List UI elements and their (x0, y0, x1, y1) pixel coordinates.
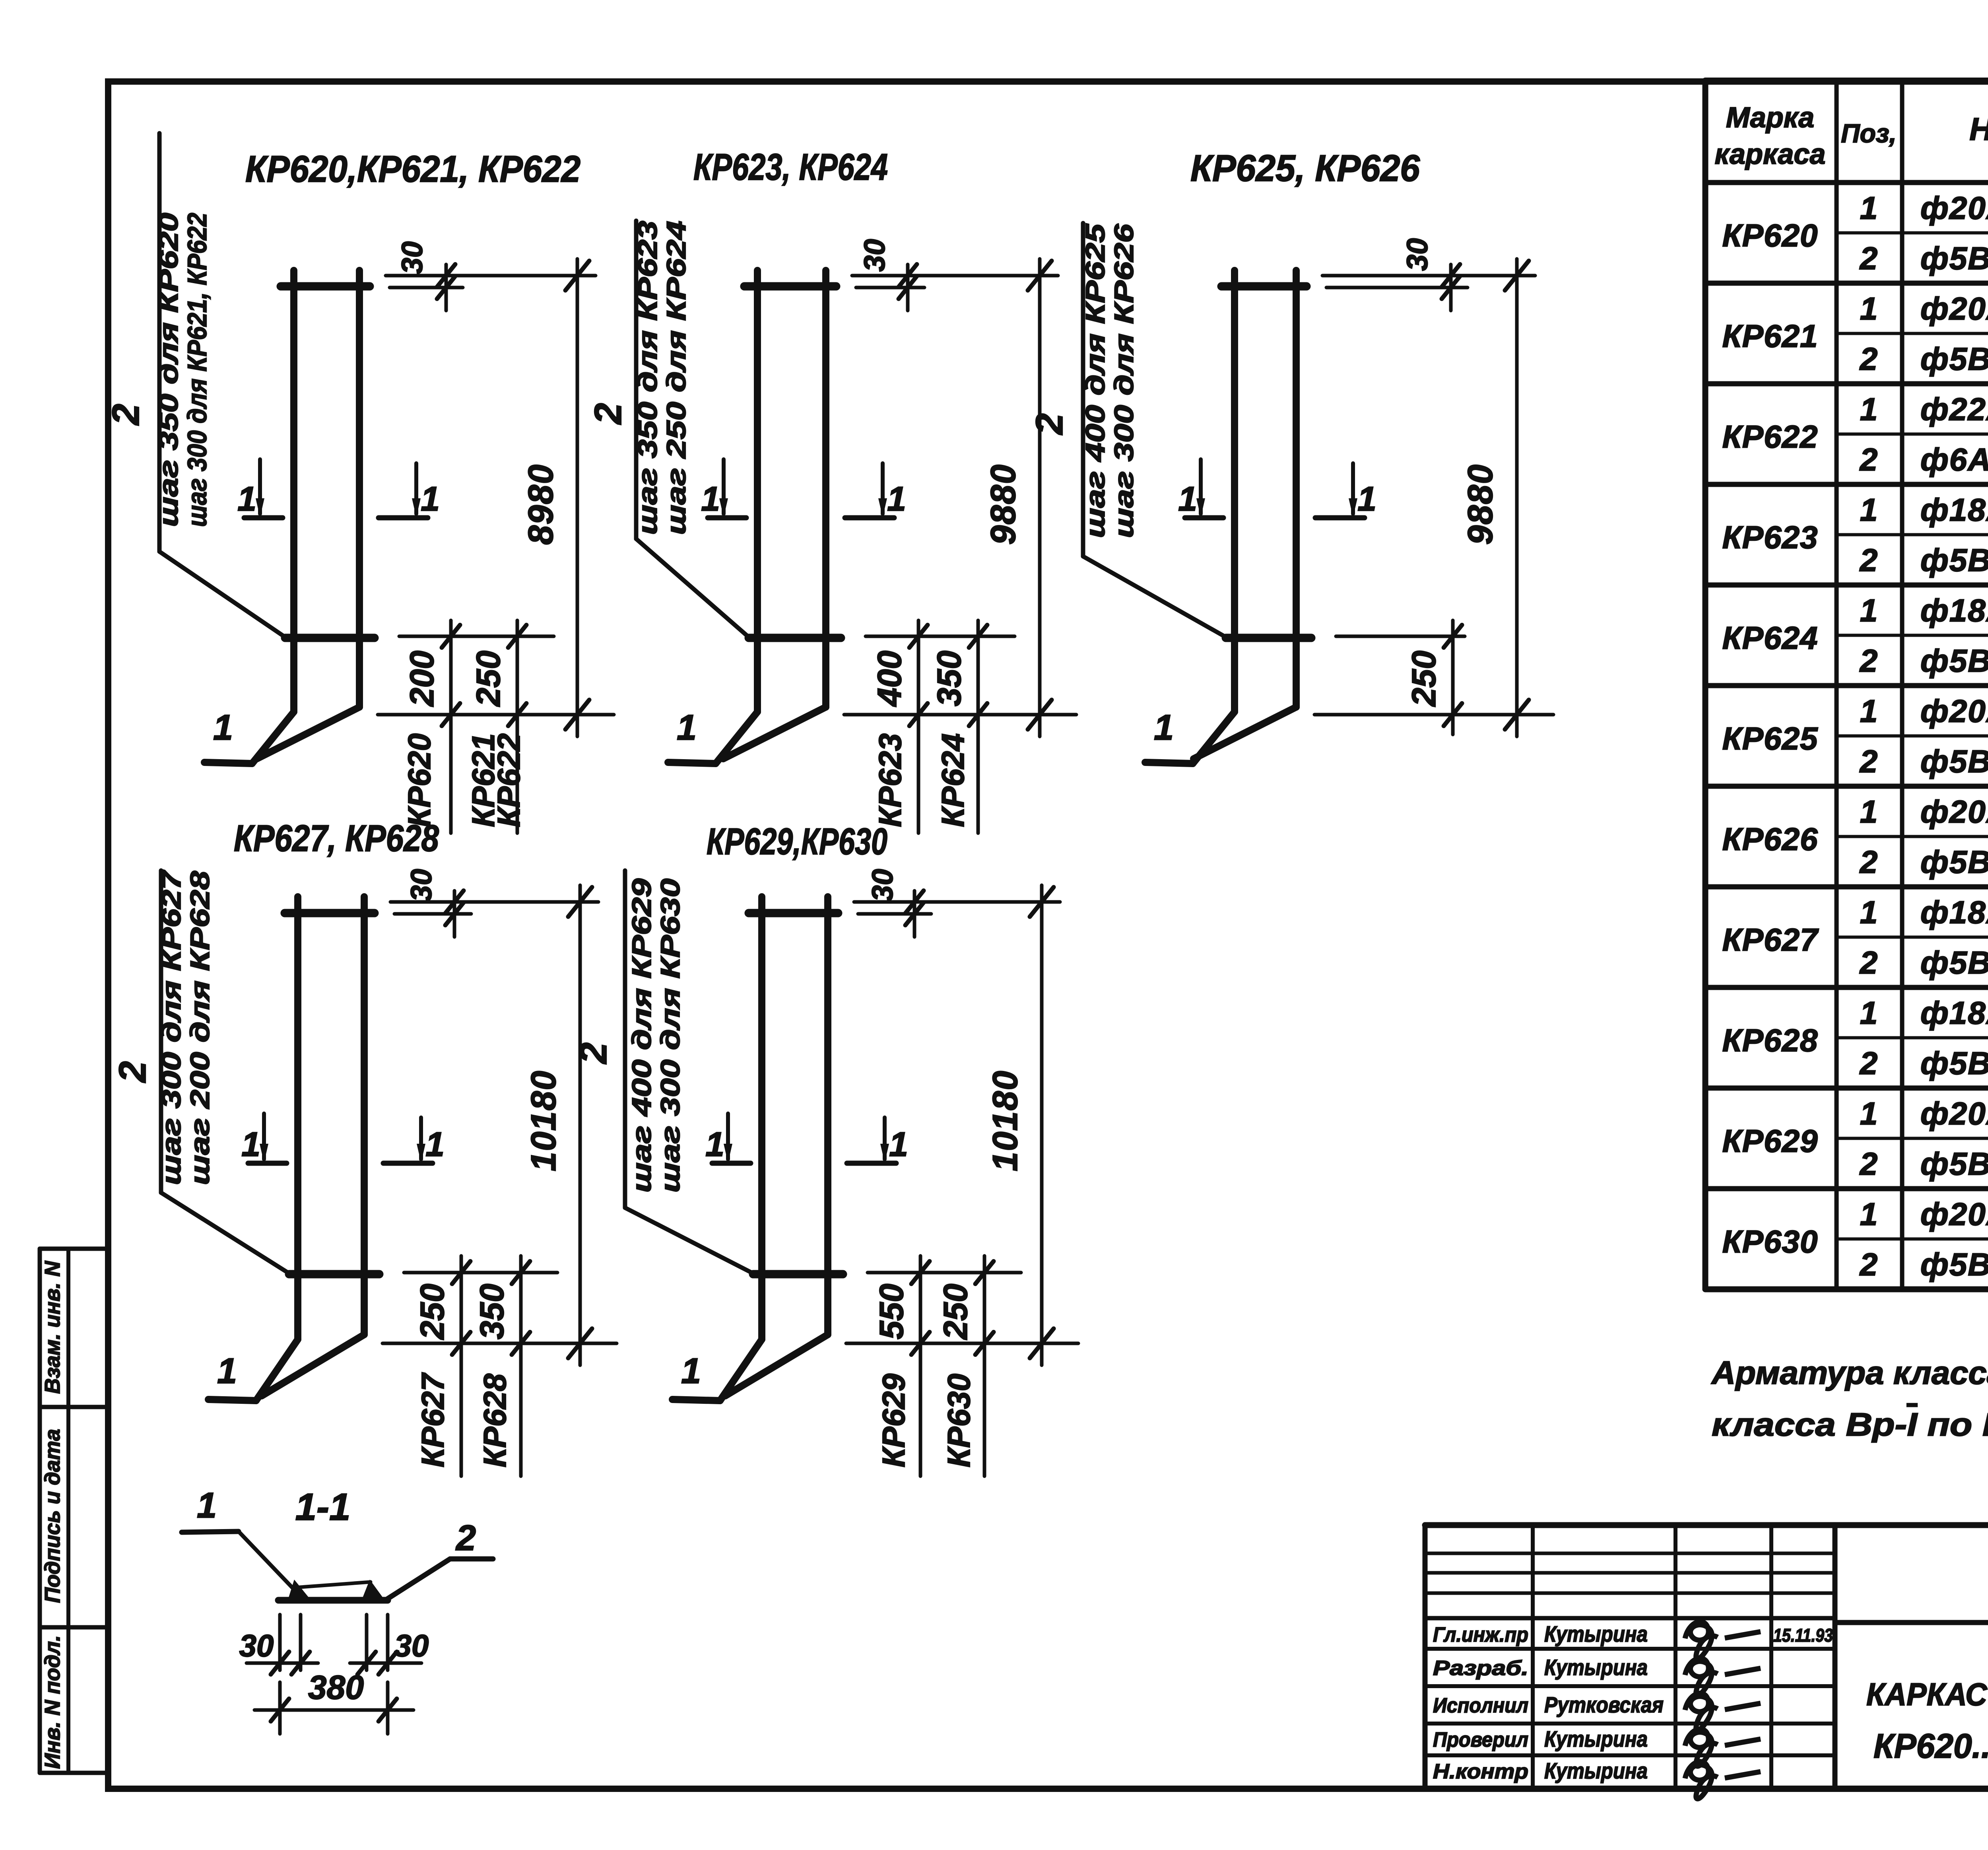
drawing KR623-624: leader line pos.2 (636, 221, 749, 637)
section detail 1-1: title (295, 1486, 351, 1528)
drawing KR627-628: bottom cross rod pos.2 (289, 1270, 379, 1279)
svg-text:250: 250 (470, 651, 507, 707)
svg-text:10180: 10180 (524, 1070, 563, 1172)
svg-text:КАРКАС ПЛОСКИЙ: КАРКАС ПЛОСКИЙ (1866, 1676, 1988, 1712)
svg-text:шаг 300 для КР630: шаг 300 для КР630 (655, 878, 685, 1193)
svg-text:Наименование: Наименование (1969, 111, 1988, 147)
svg-text:1: 1 (1357, 480, 1376, 518)
svg-text:КР626: КР626 (1722, 822, 1818, 857)
svg-text:2: 2 (1859, 542, 1878, 578)
section detail: cross rod pos.2 (horizontal) (278, 1597, 388, 1604)
drawing KR629-630: overall length dimension 10180 (985, 885, 1054, 1365)
section detail: bar sections pos.1 (filled) (288, 1580, 384, 1599)
svg-text:1: 1 (197, 1486, 217, 1525)
svg-text:КР620: КР620 (1722, 218, 1818, 253)
svg-text:9880: 9880 (983, 464, 1023, 545)
svg-text:Н.контр: Н.контр (1433, 1760, 1528, 1783)
drawing KR620-622: top cross rod pos.2 (281, 282, 370, 291)
drawing KR620-622: overall length dimension 8980 (521, 259, 589, 737)
svg-text:ф20АIIIℓ=9880: ф20АIIIℓ=9880 (1920, 794, 1988, 829)
svg-text:ф5ВрIℓ=380: ф5ВрIℓ=380 (1920, 844, 1988, 880)
svg-text:30: 30 (1401, 238, 1434, 271)
svg-text:550: 550 (873, 1284, 910, 1339)
svg-text:Марка: Марка (1726, 102, 1814, 134)
svg-text:2: 2 (1859, 241, 1878, 276)
drawing KR627-628: bottom hook dimensions (382, 1256, 617, 1476)
svg-text:1: 1 (889, 1125, 908, 1164)
svg-text:Инв. N подл.: Инв. N подл. (41, 1635, 64, 1769)
svg-text:350: 350 (930, 651, 968, 706)
svg-text:ф5ВрIℓ=380: ф5ВрIℓ=380 (1920, 643, 1988, 678)
section detail: dimension 30 (right) (350, 1615, 429, 1675)
drawing KR627-628: section mark 1 (right) (383, 1117, 445, 1164)
svg-text:КР628: КР628 (1722, 1023, 1818, 1058)
svg-text:1: 1 (425, 1125, 445, 1164)
table row КР622 (1722, 391, 1988, 477)
drawing KR627-628: leader line pos.2 (161, 871, 289, 1273)
svg-text:10180: 10180 (985, 1070, 1025, 1172)
svg-text:КР627: КР627 (415, 1372, 450, 1467)
drawing KR623-624: bottom hook label 1 (677, 708, 697, 748)
svg-text:1: 1 (1860, 190, 1878, 225)
svg-text:шаг 350 для КР623: шаг 350 для КР623 (633, 221, 663, 535)
reinforcement note (1711, 1355, 1988, 1443)
svg-text:1: 1 (1154, 708, 1174, 748)
title block: signature rows (1433, 1621, 1833, 1783)
svg-text:Взам. инв. N: Взам. инв. N (41, 1261, 64, 1394)
svg-text:2: 2 (587, 403, 629, 425)
svg-text:1: 1 (1860, 1096, 1878, 1131)
table row КР630 (1722, 1196, 1988, 1282)
svg-text:КР629,КР630: КР629,КР630 (707, 820, 887, 862)
drawing KR629-630: top cross rod pos.2 (749, 909, 838, 917)
table row КР621 (1722, 291, 1988, 377)
drawing KR627-628: spacing note (156, 869, 215, 1185)
drawing KR625-626: section mark 1 (right) (1315, 463, 1376, 518)
svg-text:1-1: 1-1 (295, 1486, 351, 1528)
drawing KR620-622: leader line pos.2 (159, 133, 285, 637)
drawing KR627-628: title (234, 817, 439, 859)
svg-text:1: 1 (705, 1125, 724, 1164)
drawing KR620-622: bottom hook label 1 (213, 708, 233, 748)
svg-text:2: 2 (455, 1518, 476, 1558)
svg-text:1: 1 (1860, 794, 1878, 829)
svg-text:ф5ВрIℓ=380: ф5ВрIℓ=380 (1920, 241, 1988, 276)
table row КР623 (1722, 492, 1988, 578)
svg-text:КР627: КР627 (1722, 922, 1819, 958)
svg-text:КР629: КР629 (1722, 1123, 1818, 1159)
svg-text:1: 1 (1178, 480, 1197, 518)
drawing KR620-622: spacing note (153, 213, 212, 527)
svg-text:КР622: КР622 (1722, 419, 1818, 455)
drawing KR627-628: right longitudinal bar pos.1 (262, 897, 364, 1396)
svg-text:9880: 9880 (1460, 464, 1500, 545)
drawing KR629-630: section mark 1 (right) (847, 1117, 908, 1164)
drawing KR627-628: left longitudinal bar pos.1 (208, 897, 298, 1401)
svg-text:2: 2 (1859, 442, 1878, 477)
drawing KR625-626: spacing note (1080, 223, 1139, 538)
svg-text:Кутырина: Кутырина (1544, 1758, 1648, 1783)
svg-text:шаг 400 для КР629: шаг 400 для КР629 (627, 878, 657, 1193)
svg-text:1: 1 (681, 1351, 701, 1391)
svg-text:ф6АIℓ=380: ф6АIℓ=380 (1920, 442, 1988, 477)
svg-text:1: 1 (701, 480, 720, 518)
drawing KR629-630: leader line pos.2 (625, 871, 753, 1273)
drawing KR629-630: label 2 (572, 1042, 615, 1064)
svg-text:КР624: КР624 (1722, 620, 1818, 656)
svg-text:1: 1 (1860, 593, 1878, 628)
svg-text:шаг 350 для КР620: шаг 350 для КР620 (153, 213, 184, 527)
svg-text:2: 2 (105, 404, 147, 426)
drawing KR629-630: right longitudinal bar pos.1 (725, 897, 828, 1396)
svg-text:1: 1 (217, 1351, 237, 1391)
svg-text:Разраб.: Разраб. (1433, 1657, 1528, 1680)
drawing KR620-622: bottom hook dimensions (378, 620, 614, 833)
svg-text:шаг 300 для КР627: шаг 300 для КР627 (156, 869, 186, 1185)
drawing KR627-628: top offset dimension 30 (390, 869, 598, 937)
svg-text:ф18АIIIℓ=9880: ф18АIIIℓ=9880 (1920, 593, 1988, 628)
svg-text:ф20АIIIℓ=10180: ф20АIIIℓ=10180 (1920, 1196, 1988, 1232)
svg-text:15.11.93: 15.11.93 (1773, 1625, 1833, 1646)
drawing KR625-626: label 2 (1028, 413, 1071, 435)
drawing KR620-622: section mark 1 (left) (237, 459, 283, 518)
table row КР625 (1722, 693, 1988, 779)
drawing KR625-626: leader line pos.2 (1083, 223, 1226, 637)
drawing KR623-624: left longitudinal bar pos.1 (668, 270, 757, 764)
svg-text:2: 2 (1859, 744, 1878, 779)
svg-text:класса Вр-I по ГОСТ 6727-80: класса Вр-I по ГОСТ 6727-80 (1712, 1407, 1988, 1443)
drawing KR623-624: section mark 1 (right) (845, 463, 906, 518)
drawing KR629-630: title (707, 820, 887, 862)
svg-text:КР630: КР630 (1722, 1224, 1818, 1259)
svg-text:1: 1 (1860, 391, 1878, 427)
drawing KR625-626: bottom hook dimensions (1314, 620, 1553, 735)
title block: drawing name (1866, 1676, 1988, 1765)
drawing KR629-630: section mark 1 (left) (705, 1113, 751, 1164)
svg-text:1: 1 (677, 708, 697, 748)
drawing KR627-628: top cross rod pos.2 (285, 909, 375, 917)
svg-text:200: 200 (403, 651, 441, 707)
drawing KR625-626: bottom mark labels (0, 0, 0, 0)
svg-text:30: 30 (394, 1628, 429, 1663)
svg-text:КР628: КР628 (477, 1373, 513, 1467)
svg-text:КР620..., КР630: КР620..., КР630 (1873, 1727, 1988, 1765)
svg-text:КР623: КР623 (1722, 520, 1818, 555)
drawing KR629-630: bottom cross rod pos.2 (753, 1270, 843, 1279)
svg-text:шаг 200 для КР628: шаг 200 для КР628 (185, 871, 215, 1185)
table row КР627 (1722, 894, 1988, 980)
drawing KR623-624: top offset dimension 30 (852, 239, 1058, 311)
svg-text:250: 250 (937, 1284, 974, 1340)
svg-text:2: 2 (1859, 945, 1878, 980)
drawing KR627-628: overall length dimension 10180 (524, 885, 592, 1365)
svg-text:2: 2 (111, 1061, 154, 1083)
table row КР620 (1722, 190, 1988, 276)
drawing KR629-630: left longitudinal bar pos.1 (672, 897, 762, 1401)
svg-text:Проверил: Проверил (1433, 1728, 1528, 1751)
drawing KR623-624: section mark 1 (left) (701, 459, 746, 518)
svg-text:Рутковская: Рутковская (1544, 1692, 1664, 1717)
svg-text:ф5ВрIℓ=380: ф5ВрIℓ=380 (1920, 1045, 1988, 1081)
svg-text:КР625, КР626: КР625, КР626 (1190, 147, 1420, 189)
svg-text:2: 2 (572, 1042, 615, 1064)
svg-text:КР629: КР629 (876, 1373, 911, 1467)
drawing KR620-622: left longitudinal bar pos.1 (204, 270, 294, 764)
svg-text:ф5ВрIℓ=380: ф5ВрIℓ=380 (1920, 1146, 1988, 1182)
svg-text:КР624: КР624 (935, 733, 971, 827)
svg-text:КР622: КР622 (491, 733, 526, 827)
svg-text:1: 1 (1860, 995, 1878, 1030)
svg-text:шаг 300 для КР621, КР622: шаг 300 для КР621, КР622 (182, 213, 212, 527)
drawing KR620-622: bottom mark labels (402, 733, 526, 827)
drawing KR625-626: bottom cross rod pos.2 (1226, 634, 1311, 642)
svg-text:ф18АIIIℓ=10180: ф18АIIIℓ=10180 (1920, 995, 1988, 1030)
drawing KR620-622: title (245, 148, 580, 190)
svg-text:380: 380 (308, 1669, 364, 1706)
section detail: dimension 30 (left) (239, 1615, 318, 1675)
svg-text:КР625: КР625 (1722, 721, 1818, 756)
drawing KR623-624: top cross rod pos.2 (744, 282, 836, 291)
drawing KR627-628: section mark 1 (left) (241, 1113, 287, 1164)
drawing KR620-622: section mark 1 (right) (379, 463, 440, 518)
section detail: leader 2 (386, 1518, 493, 1599)
svg-text:1: 1 (1860, 1196, 1878, 1232)
drawing KR620-622: right longitudinal bar pos.1 (257, 270, 359, 759)
svg-text:30: 30 (866, 869, 899, 902)
left margin captions (41, 1261, 64, 1769)
section detail: leader 1 (182, 1486, 301, 1596)
svg-text:ф20АIIIℓ=8980: ф20АIIIℓ=8980 (1920, 291, 1988, 326)
drawing KR629-630: bottom hook label 1 (681, 1351, 701, 1391)
section detail: dimension 380 (254, 1669, 414, 1734)
svg-text:Исполнил: Исполнил (1433, 1694, 1528, 1717)
svg-text:2: 2 (1859, 643, 1878, 678)
svg-text:каркаса: каркаса (1715, 138, 1826, 170)
svg-text:30: 30 (405, 869, 438, 902)
svg-text:1: 1 (887, 480, 906, 518)
svg-text:КР621: КР621 (1722, 319, 1818, 354)
svg-text:30: 30 (239, 1628, 274, 1663)
drawing KR625-626: top offset dimension 30 (1322, 238, 1535, 311)
svg-text:шаг 250 для КР624: шаг 250 для КР624 (661, 221, 691, 535)
drawing KR623-624: spacing note (633, 221, 691, 535)
svg-text:КР620: КР620 (402, 733, 437, 827)
svg-text:2: 2 (1859, 1045, 1878, 1081)
drawing KR623-624: bottom mark labels (872, 733, 971, 827)
drawing KR623-624: overall length dimension 9880 (983, 259, 1052, 737)
drawing KR625-626: left longitudinal bar pos.1 (1145, 270, 1235, 764)
svg-text:Арматура класса А-III и А-I п: Арматура класса А-III и А-I по ГОСТ 5781… (1711, 1355, 1988, 1391)
svg-text:1: 1 (241, 1125, 260, 1164)
svg-text:ф5ВрIℓ=380: ф5ВрIℓ=380 (1920, 542, 1988, 578)
svg-text:2: 2 (1859, 341, 1878, 377)
drawing KR625-626: top cross rod pos.2 (1221, 282, 1307, 291)
svg-text:350: 350 (473, 1284, 511, 1339)
svg-text:КР623: КР623 (872, 733, 908, 827)
drawing KR629-630: bottom hook dimensions (846, 1256, 1078, 1476)
svg-text:КР620,КР621, КР622: КР620,КР621, КР622 (245, 148, 580, 190)
svg-text:ф18АIIIℓ=9880: ф18АIIIℓ=9880 (1920, 492, 1988, 527)
svg-text:ф20АIIIℓ=8980: ф20АIIIℓ=8980 (1920, 190, 1988, 225)
svg-text:1: 1 (1860, 894, 1878, 930)
svg-text:КР623, КР624: КР623, КР624 (693, 146, 888, 188)
svg-text:Кутырина: Кутырина (1544, 1655, 1648, 1680)
drawing KR625-626: right longitudinal bar pos.1 (1194, 270, 1296, 759)
svg-text:Поз,: Поз, (1841, 119, 1897, 148)
svg-text:шаг 400 для КР625: шаг 400 для КР625 (1080, 223, 1110, 538)
drawing KR620-622: top offset dimension 30 (386, 241, 596, 311)
drawing KR620-622: bottom cross rod pos.2 (285, 634, 375, 642)
svg-text:30: 30 (858, 239, 891, 272)
drawing KR629-630: bottom mark labels (876, 1373, 977, 1467)
drawing KR623-624: right longitudinal bar pos.1 (723, 270, 826, 759)
svg-text:ф5ВрIℓ=380: ф5ВрIℓ=380 (1920, 945, 1988, 980)
svg-text:1: 1 (1860, 291, 1878, 326)
drawing KR623-624: label 2 (587, 403, 629, 425)
svg-text:КР630: КР630 (941, 1374, 977, 1467)
svg-text:ф5ВрIℓ=380: ф5ВрIℓ=380 (1920, 744, 1988, 779)
drawing KR625-626: title (1190, 147, 1420, 189)
svg-text:1: 1 (237, 480, 256, 518)
drawing KR623-624: bottom hook dimensions (844, 620, 1076, 833)
svg-text:шаг 300 для КР626: шаг 300 для КР626 (1109, 223, 1139, 538)
table row КР628 (1722, 995, 1988, 1081)
drawing KR623-624: bottom cross rod pos.2 (749, 634, 841, 642)
svg-text:Подпись и дата: Подпись и дата (41, 1429, 64, 1603)
svg-text:Кутырина: Кутырина (1544, 1621, 1648, 1646)
drawing KR627-628: bottom mark labels (415, 1372, 513, 1467)
drawing KR629-630: spacing note (627, 878, 685, 1193)
svg-text:250: 250 (414, 1284, 451, 1340)
svg-text:1: 1 (1860, 492, 1878, 527)
svg-text:ф5ВрIℓ=380: ф5ВрIℓ=380 (1920, 341, 1988, 377)
table row КР626 (1722, 794, 1988, 880)
svg-text:400: 400 (871, 651, 908, 707)
drawing KR620-622: label 2 (105, 404, 147, 426)
svg-text:2: 2 (1859, 1247, 1878, 1282)
table row КР629 (1722, 1096, 1988, 1182)
title block: outer border and grid (1425, 1525, 1988, 1789)
title block: signatures (squiggles) (1685, 1622, 1761, 1799)
svg-text:ф5ВрIℓ=380: ф5ВрIℓ=380 (1920, 1247, 1988, 1282)
drawing KR627-628: label 2 (111, 1061, 154, 1083)
svg-text:ф20АIIIℓ=9880: ф20АIIIℓ=9880 (1920, 693, 1988, 729)
svg-text:250: 250 (1405, 651, 1442, 707)
drawing KR625-626: bottom hook label 1 (1154, 708, 1174, 748)
svg-text:1: 1 (421, 480, 440, 518)
drawing KR625-626: section mark 1 (left) (1178, 459, 1223, 518)
svg-text:ф18АIIIℓ=10180: ф18АIIIℓ=10180 (1920, 894, 1988, 930)
specification table headers (1715, 95, 1988, 181)
svg-text:30: 30 (396, 241, 429, 274)
drawing KR627-628: bottom hook label 1 (217, 1351, 237, 1391)
svg-text:1: 1 (1860, 693, 1878, 729)
svg-text:1: 1 (213, 708, 233, 748)
svg-text:8980: 8980 (521, 464, 560, 545)
svg-text:КР627, КР628: КР627, КР628 (234, 817, 439, 859)
svg-text:Гл.инж.пр: Гл.инж.пр (1433, 1623, 1528, 1646)
drawing KR625-626: overall length dimension 9880 (1460, 259, 1529, 737)
svg-text:Кутырина: Кутырина (1544, 1726, 1648, 1751)
svg-text:2: 2 (1859, 1146, 1878, 1182)
drawing KR629-630: top offset dimension 30 (854, 869, 1060, 937)
svg-text:ф20АIIIℓ=10180: ф20АIIIℓ=10180 (1920, 1096, 1988, 1131)
drawing KR623-624: title (693, 146, 888, 188)
specification table grid (1705, 81, 1988, 1289)
left margin stamp boxes (40, 1249, 108, 1773)
svg-text:2: 2 (1028, 413, 1071, 435)
svg-text:ф22АIIIℓ=8980: ф22АIIIℓ=8980 (1920, 391, 1988, 427)
table row КР624 (1722, 593, 1988, 678)
svg-text:2: 2 (1859, 844, 1878, 880)
